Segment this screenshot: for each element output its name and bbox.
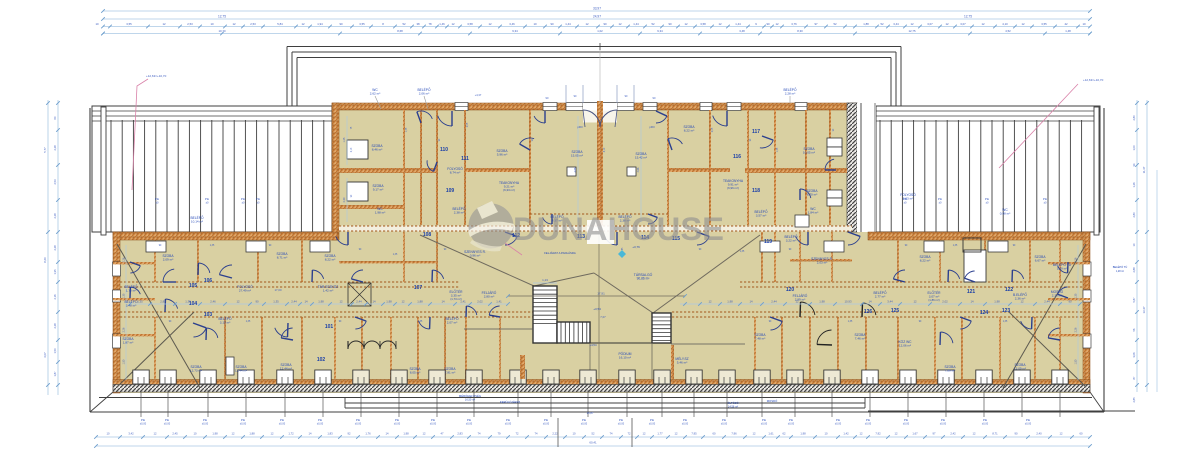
svg-text:DUNAHOUSE: DUNAHOUSE xyxy=(513,211,724,247)
svg-text:1,35: 1,35 xyxy=(53,269,57,275)
left edge small rooms walls xyxy=(113,262,155,264)
svg-text:33,97: 33,97 xyxy=(593,7,601,11)
svg-text:74: 74 xyxy=(610,432,613,436)
svg-text:±0,00: ±0,00 xyxy=(835,423,842,426)
svg-text:90: 90 xyxy=(766,22,770,26)
left vertical dim chain xyxy=(47,100,49,395)
svg-text:2,28: 2,28 xyxy=(53,213,57,219)
svg-text:Pfé: Pfé xyxy=(836,418,841,422)
svg-text:1,42 m²: 1,42 m² xyxy=(323,289,333,293)
svg-text:116: 116 xyxy=(733,154,741,160)
svg-text:90,86 m²: 90,86 m² xyxy=(637,277,651,281)
svg-text:±0,00: ±0,00 xyxy=(317,423,324,426)
right terrace deck xyxy=(876,106,1100,232)
svg-text:38: 38 xyxy=(416,22,420,26)
svg-text:Pfé: Pfé xyxy=(904,418,909,422)
svg-text:102: 102 xyxy=(317,357,326,363)
svg-text:8,60: 8,60 xyxy=(43,257,47,263)
svg-text:62: 62 xyxy=(783,432,786,436)
svg-text:Pfé: Pfé xyxy=(1026,418,1031,422)
right wing top wall xyxy=(868,232,1090,240)
svg-text:106: 106 xyxy=(204,278,213,284)
mid-band room walls left of center xyxy=(403,232,405,282)
svg-text:60: 60 xyxy=(1080,432,1083,436)
roof hip diagonals right wing xyxy=(1003,244,1086,388)
svg-text:±0,00: ±0,00 xyxy=(682,423,689,426)
room door arcs top band xyxy=(417,111,432,119)
svg-text:103: 103 xyxy=(204,312,213,318)
svg-text:52: 52 xyxy=(833,22,837,26)
right wing wall-side dim column xyxy=(1077,245,1079,380)
svg-text:12,06 m²: 12,06 m² xyxy=(899,344,911,348)
svg-text:1,02: 1,02 xyxy=(597,29,603,33)
svg-text:118: 118 xyxy=(752,188,760,194)
svg-text:90: 90 xyxy=(550,22,554,26)
svg-text:111: 111 xyxy=(461,156,469,162)
svg-text:12: 12 xyxy=(618,22,622,26)
svg-text:1,35: 1,35 xyxy=(418,321,423,323)
svg-text:±0,00: ±0,00 xyxy=(903,423,910,426)
svg-text:Pfé: Pfé xyxy=(762,418,767,422)
svg-text:7,95: 7,95 xyxy=(691,432,697,436)
svg-text:12: 12 xyxy=(913,300,917,304)
svg-text:1,50: 1,50 xyxy=(123,359,126,364)
svg-text:7,92: 7,92 xyxy=(875,432,881,436)
wing top wall window boxes xyxy=(146,241,166,252)
svg-text:1,35: 1,35 xyxy=(777,147,779,152)
svg-text:±0,00: ±0,00 xyxy=(394,423,401,426)
svg-text:1,35: 1,35 xyxy=(210,245,215,247)
right wing right wall xyxy=(1083,232,1090,393)
svg-text:12,75: 12,75 xyxy=(964,15,972,19)
roof outline right verticals xyxy=(900,47,902,109)
svg-text:10: 10 xyxy=(533,22,537,26)
svg-text:2,16: 2,16 xyxy=(53,294,57,300)
svg-text:52: 52 xyxy=(651,22,655,26)
pink leader attic xyxy=(505,243,522,255)
svg-text:12: 12 xyxy=(339,300,343,304)
svg-text:3,48 m²: 3,48 m² xyxy=(126,304,136,308)
svg-text:9,34: 9,34 xyxy=(657,29,663,33)
roof hip diagonals left wing xyxy=(117,244,200,388)
svg-text:8,70 m²: 8,70 m² xyxy=(807,193,817,197)
svg-text:1,98: 1,98 xyxy=(727,300,733,304)
svg-text:2,62 m²: 2,62 m² xyxy=(370,92,380,96)
roof center mark xyxy=(599,43,601,50)
svg-text:Pfé: Pfé xyxy=(866,418,871,422)
right vertical dim chain xyxy=(1136,100,1138,392)
top chain row ticks xyxy=(108,25,112,29)
svg-text:2,05: 2,05 xyxy=(467,122,469,127)
svg-text:1,35: 1,35 xyxy=(393,254,398,256)
svg-text:1,35: 1,35 xyxy=(246,321,251,323)
svg-text:pl60: pl60 xyxy=(649,125,655,129)
svg-text:Pfé: Pfé xyxy=(722,418,727,422)
svg-text:2,26: 2,26 xyxy=(123,327,126,332)
svg-text:1,25: 1,25 xyxy=(343,137,346,142)
svg-text:8,68: 8,68 xyxy=(397,29,403,33)
svg-text:14: 14 xyxy=(970,300,974,304)
central right wall gray hatched xyxy=(847,103,857,232)
svg-text:10,14 m²: 10,14 m² xyxy=(191,220,203,224)
svg-text:1,35: 1,35 xyxy=(406,127,408,132)
svg-text:1,98: 1,98 xyxy=(318,300,324,304)
svg-text:1,98: 1,98 xyxy=(994,300,1000,304)
svg-text:90: 90 xyxy=(1068,300,1072,304)
bottom witness verticals xyxy=(557,418,559,447)
svg-text:2,28 m²: 2,28 m² xyxy=(785,92,795,96)
entry door arcs top corridor xyxy=(438,116,452,126)
svg-text:1,35: 1,35 xyxy=(848,321,853,323)
svg-text:(6,33 m²): (6,33 m²) xyxy=(503,188,515,192)
svg-text:15,05 m²: 15,05 m² xyxy=(571,154,583,158)
svg-text:90: 90 xyxy=(603,22,607,26)
envelope eaves outline xyxy=(89,108,91,412)
right belepo cluster box xyxy=(795,215,809,227)
entrance recess xyxy=(583,111,617,123)
svg-text:2,22: 2,22 xyxy=(552,432,558,436)
svg-text:Pfé: Pfé xyxy=(280,418,285,422)
wardrobe boxes central right xyxy=(827,138,842,147)
svg-text:0,96 m²: 0,96 m² xyxy=(470,254,480,258)
svg-text:1,76: 1,76 xyxy=(365,432,371,436)
svg-text:4,10: 4,10 xyxy=(604,147,606,152)
svg-text:12: 12 xyxy=(423,432,426,436)
svg-text:1,35: 1,35 xyxy=(123,293,126,298)
svg-text:13,47: 13,47 xyxy=(1142,306,1146,313)
svg-text:1,98 m²: 1,98 m² xyxy=(375,211,385,215)
center lower outline lines xyxy=(345,402,865,404)
svg-text:1,35: 1,35 xyxy=(953,245,958,247)
svg-text:2,53: 2,53 xyxy=(53,179,57,185)
svg-text:74: 74 xyxy=(535,432,538,436)
svg-text:2,44: 2,44 xyxy=(291,300,297,304)
svg-text:±0,00: ±0,00 xyxy=(982,423,989,426)
svg-text:Pfé: Pfé xyxy=(241,197,246,201)
svg-text:104: 104 xyxy=(189,301,198,307)
svg-text:1,35: 1,35 xyxy=(137,300,143,304)
corridor walls wings xyxy=(120,281,460,283)
svg-text:3,42: 3,42 xyxy=(128,432,134,436)
bottom dim line 2 xyxy=(96,445,1090,447)
svg-text:±0,00: ±0,00 xyxy=(761,423,768,426)
svg-text:Pfé: Pfé xyxy=(318,418,323,422)
left wall window openings xyxy=(113,262,121,276)
svg-text:12: 12 xyxy=(860,432,863,436)
svg-text:2,77 m²: 2,77 m² xyxy=(875,295,885,299)
svg-text:3,57 m²: 3,57 m² xyxy=(756,214,766,218)
svg-text:KERÜLŐJÁRAT: KERÜLŐJÁRAT xyxy=(500,399,520,404)
svg-text:8,71 m²: 8,71 m² xyxy=(277,256,287,260)
svg-text:15,87: 15,87 xyxy=(587,411,594,415)
right terrace gutter strip xyxy=(1094,107,1099,235)
svg-text:5,77: 5,77 xyxy=(43,147,47,153)
furniture rects right xyxy=(963,238,981,252)
svg-text:±0,00: ±0,00 xyxy=(279,423,286,426)
svg-text:Pfé: Pfé xyxy=(941,418,946,422)
roof valley lines center xyxy=(420,235,534,286)
svg-text:8,71: 8,71 xyxy=(992,432,998,436)
podium edge line xyxy=(557,342,652,344)
svg-text:2,28: 2,28 xyxy=(53,245,57,251)
white strip east of central block xyxy=(857,103,876,232)
svg-text:126: 126 xyxy=(864,309,873,315)
svg-text:60,41: 60,41 xyxy=(589,441,597,445)
corridor dimension line xyxy=(128,303,508,305)
right wing corridor doors xyxy=(893,270,905,279)
svg-text:Pfé: Pfé xyxy=(1043,197,1048,201)
svg-text:10: 10 xyxy=(1082,22,1086,26)
svg-text:12: 12 xyxy=(232,22,236,26)
svg-text:52: 52 xyxy=(880,22,884,26)
svg-text:1,44: 1,44 xyxy=(565,22,571,26)
left wing left wall xyxy=(113,232,120,393)
svg-text:±0,00: ±0,00 xyxy=(355,423,362,426)
left wing top-row partition walls xyxy=(154,240,156,282)
svg-text:5,84: 5,84 xyxy=(277,22,283,26)
svg-text:2,06 m²: 2,06 m² xyxy=(419,92,429,96)
svg-text:±0,00: ±0,00 xyxy=(430,423,437,426)
svg-text:+3,54: +3,54 xyxy=(593,307,601,311)
right lower long line xyxy=(868,410,1135,412)
svg-text:9,34: 9,34 xyxy=(512,29,518,33)
svg-text:14: 14 xyxy=(372,300,376,304)
right wall window openings xyxy=(1083,262,1091,276)
svg-text:109: 109 xyxy=(446,188,455,194)
svg-text:7,89 m²: 7,89 m² xyxy=(945,369,955,373)
svg-text:90: 90 xyxy=(255,300,259,304)
svg-text:3,44: 3,44 xyxy=(893,22,899,26)
svg-text:92: 92 xyxy=(348,432,351,436)
svg-text:Pfé: Pfé xyxy=(938,197,943,201)
svg-text:12: 12 xyxy=(675,432,678,436)
svg-text:1,87 m²: 1,87 m² xyxy=(123,341,133,345)
svg-text:12: 12 xyxy=(401,300,405,304)
chimney shaft xyxy=(226,357,234,375)
svg-text:±0,00: ±0,00 xyxy=(649,423,656,426)
svg-text:125: 125 xyxy=(891,308,900,314)
svg-text:12: 12 xyxy=(910,22,914,26)
svg-text:1,28 m²: 1,28 m² xyxy=(1116,270,1124,273)
bottom wall xyxy=(113,380,1090,385)
left wing top wall xyxy=(113,232,338,240)
top chain end ticks xyxy=(101,9,105,13)
svg-text:7,96: 7,96 xyxy=(731,432,737,436)
svg-text:14: 14 xyxy=(309,432,312,436)
svg-text:2,09 m²: 2,09 m² xyxy=(163,258,173,262)
svg-text:10: 10 xyxy=(107,432,110,436)
svg-text:4,88: 4,88 xyxy=(574,167,577,172)
svg-text:12: 12 xyxy=(945,22,949,26)
svg-text:ÖLTÖZŐ: ÖLTÖZŐ xyxy=(727,400,739,405)
svg-text:2,44: 2,44 xyxy=(771,300,777,304)
svg-text:1,50: 1,50 xyxy=(53,348,57,354)
svg-text:1,98: 1,98 xyxy=(403,432,409,436)
svg-text:2,85: 2,85 xyxy=(160,300,166,304)
svg-text:72: 72 xyxy=(516,432,519,436)
svg-text:±0,00: ±0,00 xyxy=(721,423,728,426)
svg-text:1,61: 1,61 xyxy=(768,432,774,436)
svg-text:12: 12 xyxy=(1060,432,1063,436)
svg-text:1,23: 1,23 xyxy=(542,278,548,282)
building floor fill right wing xyxy=(872,232,1090,393)
svg-text:12: 12 xyxy=(1021,22,1025,26)
right wing bottom-row partition walls xyxy=(754,317,756,379)
svg-text:1,35: 1,35 xyxy=(740,251,745,253)
svg-text:12: 12 xyxy=(451,22,455,26)
svg-text:2,02: 2,02 xyxy=(942,300,948,304)
svg-text:1,98: 1,98 xyxy=(386,300,392,304)
svg-text:12,44 m²: 12,44 m² xyxy=(235,369,247,373)
svg-text:12: 12 xyxy=(301,22,305,26)
svg-text:17,00: 17,00 xyxy=(275,288,282,292)
svg-text:2,38 m²: 2,38 m² xyxy=(454,211,464,215)
svg-text:10: 10 xyxy=(194,432,197,436)
svg-text:52: 52 xyxy=(402,22,406,26)
svg-text:Pfé: Pfé xyxy=(241,418,246,422)
svg-text:±0,00: ±0,00 xyxy=(581,423,588,426)
svg-text:1,88: 1,88 xyxy=(249,432,255,436)
svg-text:10,93: 10,93 xyxy=(845,300,852,304)
svg-text:Pfé: Pfé xyxy=(582,418,587,422)
svg-text:52: 52 xyxy=(592,432,595,436)
svg-text:1,44: 1,44 xyxy=(633,22,639,26)
svg-text:1,46: 1,46 xyxy=(439,22,445,26)
entrance witness lines xyxy=(565,85,567,103)
svg-text:11,37: 11,37 xyxy=(1142,166,1146,173)
furniture rects top-left rooms xyxy=(347,140,368,159)
roof ridge outline top xyxy=(287,46,901,48)
bottom dim chain main xyxy=(96,436,1090,438)
svg-text:12,75: 12,75 xyxy=(218,15,226,19)
svg-text:2,40: 2,40 xyxy=(1036,432,1042,436)
bottom facade window boxes xyxy=(133,370,149,384)
svg-text:3,48: 3,48 xyxy=(739,29,745,33)
svg-text:1,44: 1,44 xyxy=(735,22,741,26)
svg-text:2,53: 2,53 xyxy=(187,22,193,26)
svg-text:108: 108 xyxy=(423,232,432,238)
svg-text:Pfé: Pfé xyxy=(983,418,988,422)
svg-text:2,44: 2,44 xyxy=(356,300,362,304)
svg-text:15,42 m²: 15,42 m² xyxy=(635,156,647,160)
svg-text:14: 14 xyxy=(868,300,872,304)
svg-text:12: 12 xyxy=(708,300,712,304)
svg-text:9,17 m²: 9,17 m² xyxy=(373,188,383,192)
left terrace deck xyxy=(92,106,332,232)
svg-text:60: 60 xyxy=(713,432,716,436)
svg-text:Pfé: Pfé xyxy=(203,418,208,422)
corridor north dashed wall center xyxy=(339,226,852,232)
wall stubs near stairs xyxy=(520,355,525,379)
bottom wall gray hatch band xyxy=(113,385,1090,393)
svg-text:1,70 m²: 1,70 m² xyxy=(126,289,136,293)
svg-text:90: 90 xyxy=(339,22,343,26)
svg-text:3,58: 3,58 xyxy=(467,22,473,26)
svg-text:12: 12 xyxy=(232,432,235,436)
svg-text:42: 42 xyxy=(1064,22,1068,26)
svg-text:Pfé: Pfé xyxy=(165,418,170,422)
svg-text:±0,00: ±0,00 xyxy=(466,423,473,426)
column squares big rooms xyxy=(567,167,576,176)
svg-text:90: 90 xyxy=(1015,432,1018,436)
svg-text:105: 105 xyxy=(189,283,198,289)
svg-text:2,26: 2,26 xyxy=(1075,327,1078,332)
svg-text:12: 12 xyxy=(718,22,722,26)
svg-text:Pfé: Pfé xyxy=(789,418,794,422)
watermark duna house logo xyxy=(468,201,514,251)
svg-text:7,07: 7,07 xyxy=(600,315,606,319)
svg-text:2,30: 2,30 xyxy=(343,197,346,202)
svg-text:FELJÁRAT A PADLÁSRA: FELJÁRAT A PADLÁSRA xyxy=(544,251,576,255)
svg-text:3,10 m²: 3,10 m² xyxy=(220,321,230,325)
svg-text:Pfé: Pfé xyxy=(155,197,160,201)
svg-text:12: 12 xyxy=(271,432,274,436)
svg-text:2,46: 2,46 xyxy=(210,300,216,304)
svg-text:3,46: 3,46 xyxy=(509,22,515,26)
svg-text:Pfé: Pfé xyxy=(141,418,146,422)
envelope corner chamfers xyxy=(90,392,113,412)
svg-text:2,89 m²: 2,89 m² xyxy=(795,298,805,302)
svg-text:8,46 m²: 8,46 m² xyxy=(372,148,382,152)
svg-text:10: 10 xyxy=(825,432,828,436)
building centerline xyxy=(598,232,600,379)
svg-text:2,05: 2,05 xyxy=(712,127,714,132)
svg-text:4,88: 4,88 xyxy=(637,167,640,172)
svg-text:101: 101 xyxy=(325,324,334,330)
svg-text:10: 10 xyxy=(210,22,214,26)
svg-text:14: 14 xyxy=(386,432,389,436)
svg-text:MOSDÓ: MOSDÓ xyxy=(767,398,778,403)
svg-text:Pfé: Pfé xyxy=(650,418,655,422)
svg-text:47: 47 xyxy=(441,432,444,436)
svg-text:1,72: 1,72 xyxy=(288,432,294,436)
svg-text:14: 14 xyxy=(304,300,308,304)
svg-text:12: 12 xyxy=(585,22,589,26)
svg-text:14,56 m²: 14,56 m² xyxy=(728,405,738,409)
svg-text:12: 12 xyxy=(236,300,240,304)
svg-text:7,48 m²: 7,48 m² xyxy=(755,337,765,341)
svg-text:119: 119 xyxy=(764,239,772,245)
equipment box with X xyxy=(348,283,371,306)
svg-text:120: 120 xyxy=(786,287,795,293)
central spine wall xyxy=(597,110,603,232)
svg-text:1,67: 1,67 xyxy=(912,432,918,436)
svg-text:3,55: 3,55 xyxy=(1041,22,1047,26)
svg-text:±0,00: ±0,00 xyxy=(240,423,247,426)
svg-text:2,36 m²: 2,36 m² xyxy=(1015,297,1025,301)
svg-text:+12,63=+10,70: +12,63=+10,70 xyxy=(1083,78,1104,82)
svg-text:Pfé: Pfé xyxy=(467,418,472,422)
svg-text:Pfé: Pfé xyxy=(683,418,688,422)
svg-text:3,44: 3,44 xyxy=(887,300,893,304)
svg-text:2,28: 2,28 xyxy=(53,145,57,151)
svg-text:±0,00: ±0,00 xyxy=(164,423,171,426)
center szoba vertical dims xyxy=(577,116,579,222)
svg-text:(6,96 m²): (6,96 m²) xyxy=(727,186,739,190)
svg-text:Pfé: Pfé xyxy=(256,197,261,201)
svg-text:12: 12 xyxy=(154,432,157,436)
svg-text:±0,00: ±0,00 xyxy=(1025,423,1032,426)
svg-text:123: 123 xyxy=(1002,308,1011,314)
svg-text:2,28: 2,28 xyxy=(53,323,57,329)
svg-text:2,53: 2,53 xyxy=(250,22,256,26)
svg-text:7,81 m²: 7,81 m² xyxy=(445,371,455,375)
right wing top-row partition walls xyxy=(897,240,899,282)
svg-text:24,97: 24,97 xyxy=(593,15,601,19)
witness lines to bottom dims xyxy=(140,390,142,417)
svg-text:3,22 m²: 3,22 m² xyxy=(786,239,796,243)
svg-text:1,87: 1,87 xyxy=(53,371,57,377)
